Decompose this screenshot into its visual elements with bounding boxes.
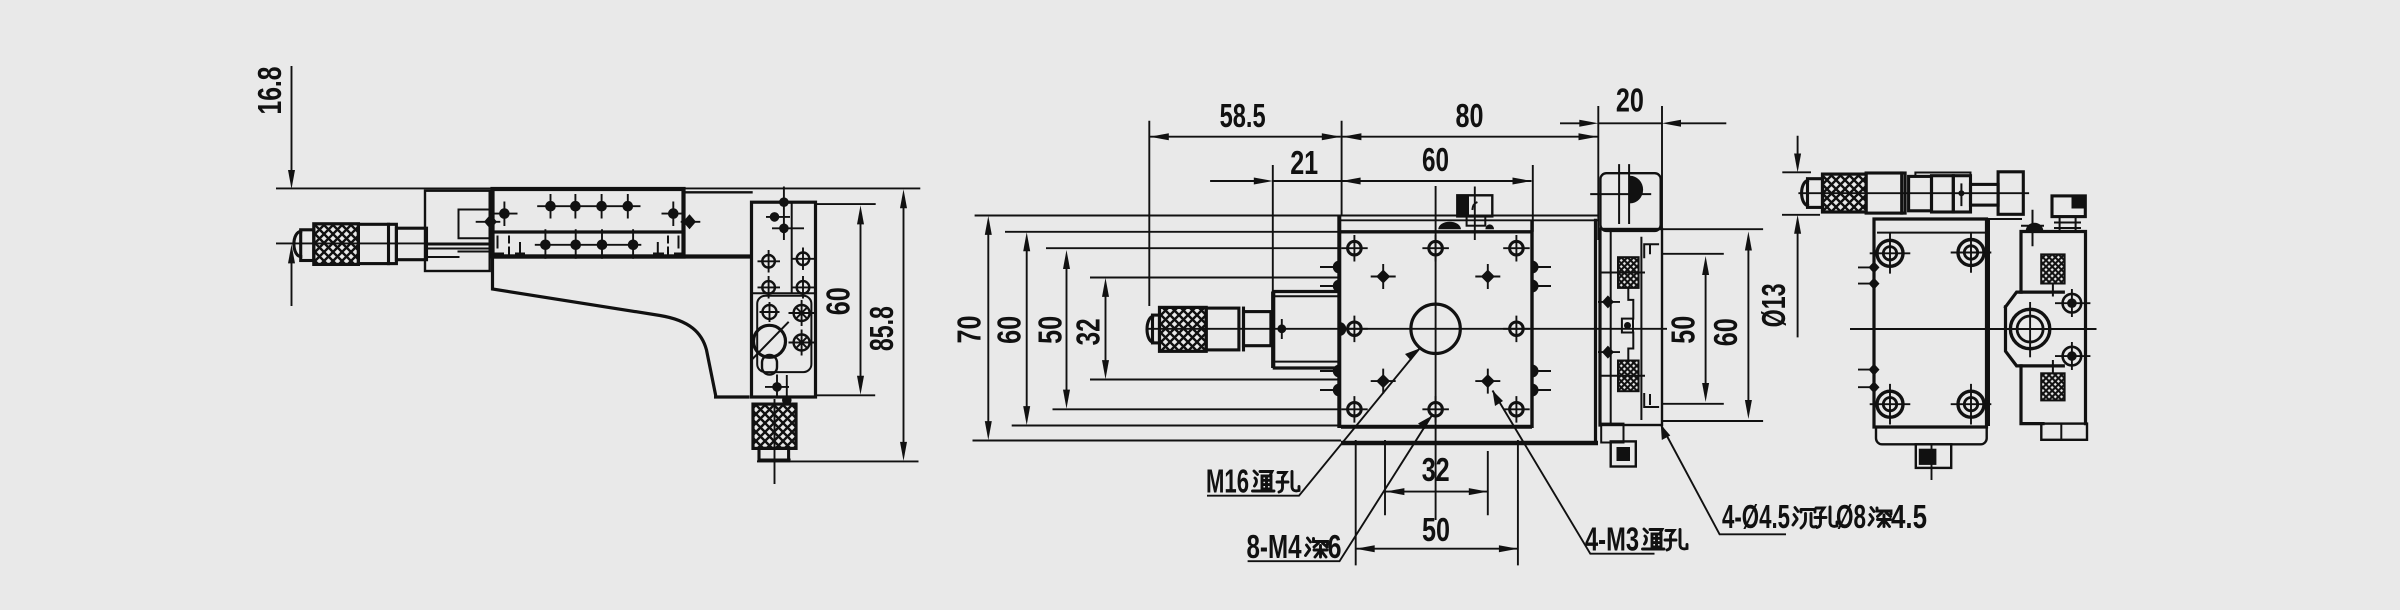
svg-text:50: 50 <box>1032 316 1069 344</box>
rv clamp screw on column top <box>2022 211 2043 246</box>
svg-text:6: 6 <box>1328 528 1342 565</box>
svg-text:50: 50 <box>1665 316 1702 344</box>
rail bottom row screw line <box>535 244 642 246</box>
svg-text:60: 60 <box>1422 141 1449 178</box>
top block half disc <box>1630 176 1643 204</box>
rv mount boss <box>1998 172 2023 215</box>
svg-text:32: 32 <box>1422 451 1450 488</box>
rail inner lines <box>1611 229 1642 425</box>
svg-text:Ø8: Ø8 <box>1836 498 1866 535</box>
svg-text:32: 32 <box>1070 318 1107 345</box>
micrometer Y: knurled knob <box>1160 307 1207 351</box>
platform left edge <box>1337 216 1341 429</box>
rail bottom pieces <box>1601 424 1623 443</box>
hidden clamp marks right <box>654 237 683 255</box>
svg-text:21: 21 <box>1290 144 1318 181</box>
plate bottom screws <box>765 375 789 403</box>
micrometer X: spindle slot <box>427 245 491 249</box>
bottom knob centerline <box>759 399 791 484</box>
rv micrometer knurled knob <box>1823 174 1867 212</box>
50 ext lines through screw rows <box>1046 248 1341 409</box>
bottom knob cap <box>759 448 789 460</box>
micrometer bracket (middle view) <box>1274 292 1338 369</box>
platform right edge <box>1530 220 1533 428</box>
svg-text:85.8: 85.8 <box>863 306 900 351</box>
micrometer axis extension line <box>276 242 492 244</box>
micrometer X: cap <box>301 230 314 261</box>
leader 4-d4.5 <box>1661 425 1786 535</box>
rail top block <box>1600 173 1660 231</box>
rv boss circles <box>2010 309 2049 348</box>
stadium slot <box>762 355 777 375</box>
rail top row screw line <box>537 205 640 207</box>
rv corner screws <box>1877 240 1984 418</box>
base top edge + ext <box>975 215 1598 217</box>
rv plate outer <box>1874 219 1987 427</box>
edge diamonds on rail <box>476 221 701 223</box>
connector block top edge <box>684 191 752 193</box>
rv micrometer barrel <box>1866 173 1905 213</box>
rail diamonds <box>1598 302 1620 352</box>
plate top screw <box>765 187 804 241</box>
base right edge <box>1594 220 1597 443</box>
rv column <box>2021 232 2086 424</box>
rv micrometer body <box>1909 176 1932 210</box>
rv left edge diamonds <box>1858 267 1874 387</box>
rv small screws right <box>2063 294 2082 366</box>
svg-text:80: 80 <box>1456 97 1484 134</box>
base bottom edge + ext <box>973 440 1342 442</box>
micrometer X: knurled knob <box>314 224 359 265</box>
right rail (middle view) outer <box>1600 229 1662 425</box>
svg-text:20: 20 <box>1616 82 1644 119</box>
spindle dot in bracket <box>1277 324 1286 333</box>
svg-text:4-M3: 4-M3 <box>1585 521 1639 558</box>
platform bottom edge (60 ext) <box>1012 425 1341 427</box>
rv column foot <box>2041 424 2087 440</box>
screws top row <box>494 194 685 226</box>
dial circle with slash <box>754 325 786 357</box>
svg-text:4-Ø4.5: 4-Ø4.5 <box>1722 498 1790 535</box>
top clamp assembly <box>1474 187 1476 241</box>
rv bottom tab <box>1916 444 1951 468</box>
x-cross screws <box>794 305 810 351</box>
32 ext lines <box>1090 278 1339 380</box>
spindle contact half-dot on platform edge <box>1339 322 1346 336</box>
svg-text:70: 70 <box>951 316 988 344</box>
plate inner lines <box>752 202 816 293</box>
leader M16 <box>1207 349 1420 496</box>
micrometer X: end cap arc <box>294 232 301 257</box>
hidden clamp marks left <box>494 237 524 255</box>
rv column top screw dome <box>2026 223 2044 231</box>
platform top edge (60 ext) <box>1005 231 1341 233</box>
rail middle square + zigzag <box>1622 319 1633 333</box>
dim 60 extension lines <box>817 204 876 395</box>
svg-text:60: 60 <box>1707 318 1744 346</box>
L-bracket base <box>493 257 749 398</box>
right view micrometer axis <box>1798 192 2029 194</box>
plate edge extension up <box>1341 121 1343 216</box>
micrometer mounting block <box>425 191 490 271</box>
dim 85.8 <box>757 460 919 462</box>
8-M4 screws 3x3 grid <box>1341 235 1530 423</box>
rv boss octagon <box>2006 292 2064 366</box>
rv side gap strip <box>1989 219 2021 425</box>
micrometer Y: barrel <box>1206 308 1239 350</box>
right vertical plate outer <box>752 202 816 397</box>
middle view: horizontal centerline <box>1146 328 1667 330</box>
rv plate bottom band <box>1876 427 1987 444</box>
svg-text:60: 60 <box>820 287 857 315</box>
micrometer Y: end cap <box>1147 317 1152 343</box>
rv micrometer cap <box>1802 181 1808 206</box>
svg-text:Ø13: Ø13 <box>1755 283 1792 327</box>
svg-text:16.8: 16.8 <box>251 67 288 115</box>
dim 60 line <box>860 224 862 376</box>
svg-text:4.5: 4.5 <box>1891 498 1927 535</box>
M16 central circle <box>1411 304 1460 353</box>
plate left edge half-dots <box>1333 261 1339 397</box>
rv spindle <box>1971 184 1999 205</box>
rv top thin tab <box>1915 173 1970 177</box>
micrometer X: shaft <box>396 228 426 260</box>
leader 8-M4 <box>1248 416 1432 561</box>
micrometer X: barrel <box>358 224 396 263</box>
top extension line (left view) <box>276 187 920 189</box>
dim 16.8 dimension line + arrows <box>291 66 293 306</box>
4-M3 diamonds <box>1371 264 1501 394</box>
svg-text:8-M4: 8-M4 <box>1247 528 1302 565</box>
bottom knurled knob <box>753 404 796 448</box>
svg-text:50: 50 <box>1422 511 1450 548</box>
rail right side tabs <box>1644 244 1658 407</box>
rail knurled pads <box>1618 257 1639 288</box>
middle view: vertical centerline <box>1435 186 1437 520</box>
rv clamp blocks <box>1932 176 1954 212</box>
plate screws open circles <box>758 248 815 299</box>
plate right edge half-dots <box>1532 261 1539 397</box>
rv top screw assembly <box>2052 196 2085 217</box>
leader 4-M3 <box>1493 391 1655 554</box>
svg-text:M16: M16 <box>1206 463 1249 500</box>
svg-text:58.5: 58.5 <box>1220 97 1266 134</box>
right view centerline <box>1850 328 2097 330</box>
svg-text:60: 60 <box>991 316 1028 344</box>
micrometer Y: shaft <box>1244 312 1271 346</box>
rail assembly outer <box>493 189 684 257</box>
rv column knurl pads <box>2041 254 2064 283</box>
